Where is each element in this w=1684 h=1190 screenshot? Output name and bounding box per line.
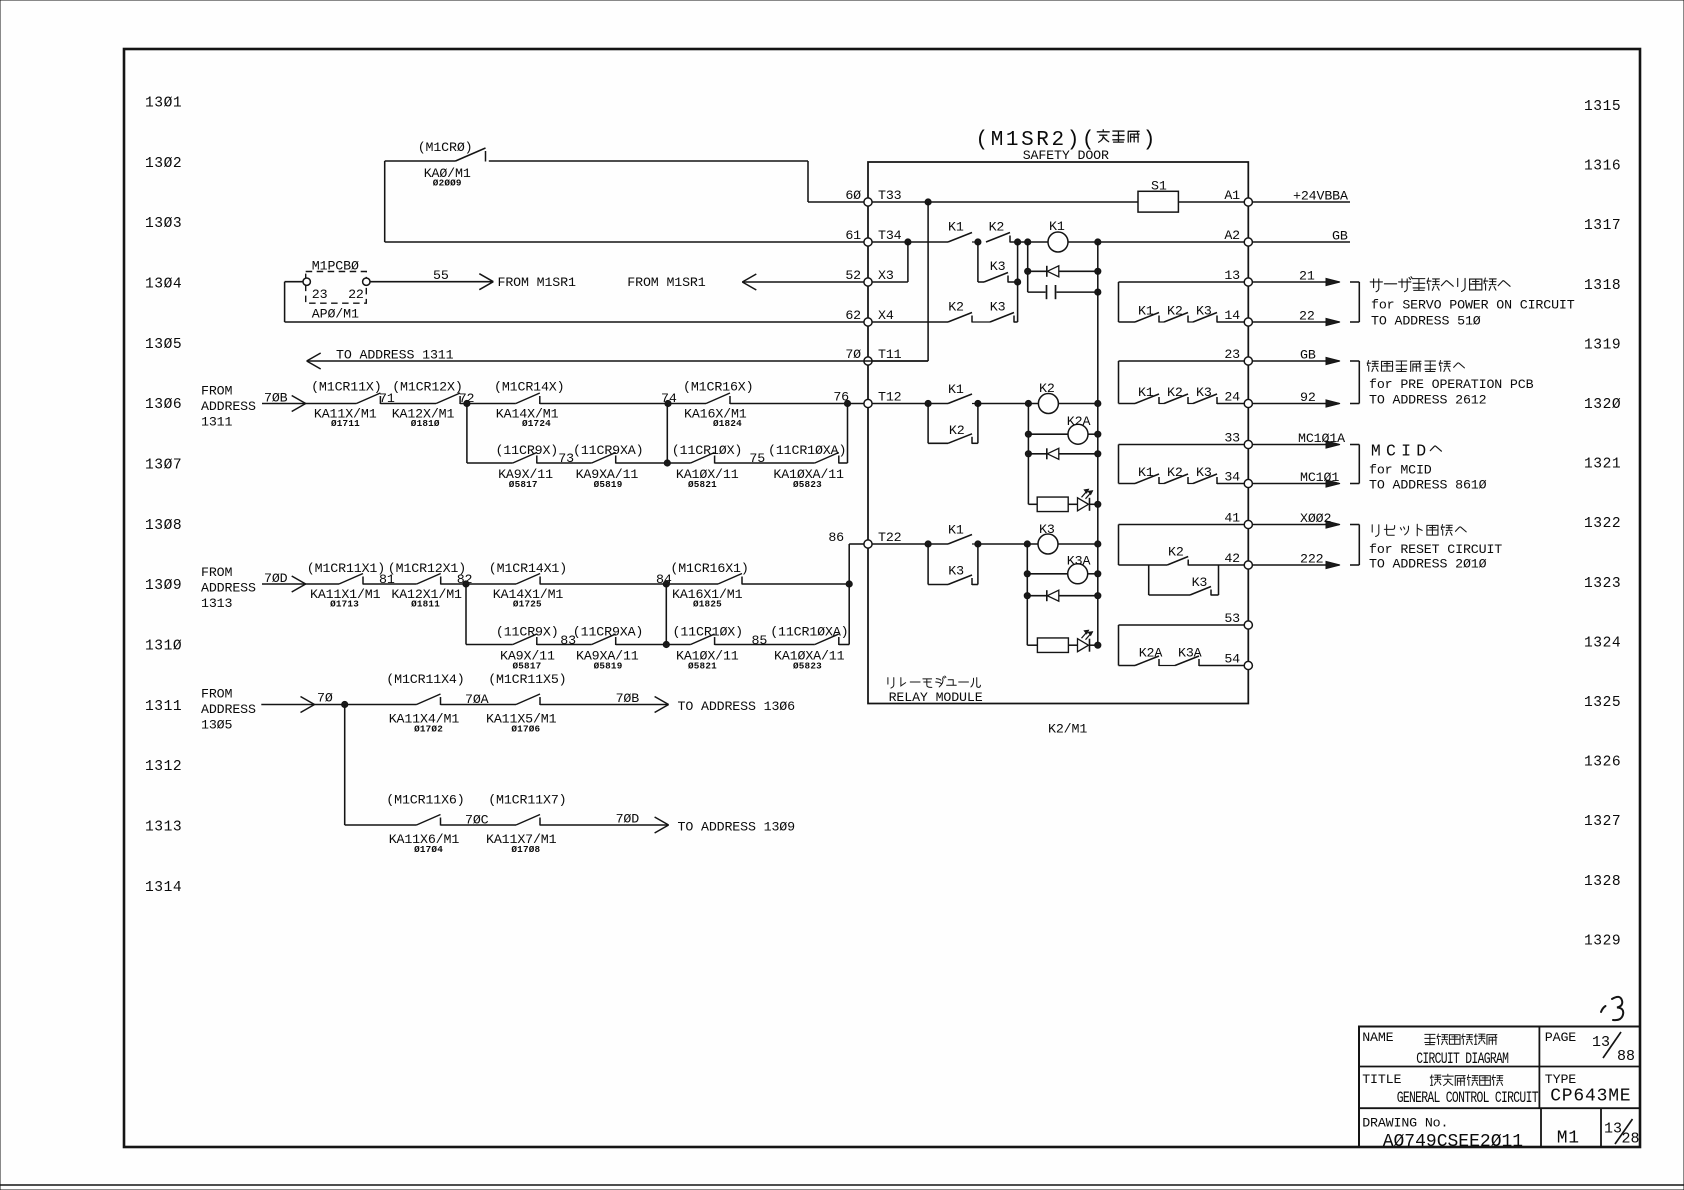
junction T33 xyxy=(925,199,931,205)
wire 70D xyxy=(262,571,339,592)
svg-text:53: 53 xyxy=(1224,611,1240,626)
svg-text:K3A: K3A xyxy=(1178,646,1202,661)
svg-text:SAFETY DOOR: SAFETY DOOR xyxy=(1023,148,1109,163)
bracket reset xyxy=(1350,524,1359,526)
wire 70D out xyxy=(540,812,795,835)
svg-text:52: 52 xyxy=(845,268,861,283)
svg-text:(M1CR11X7): (M1CR11X7) xyxy=(488,793,566,808)
svg-text:21: 21 xyxy=(1299,269,1315,284)
contact KA11X5/M1 (M1CR11X5) xyxy=(486,672,566,735)
svg-text:(M1CR16X1): (M1CR16X1) xyxy=(670,561,748,576)
svg-text:NAME: NAME xyxy=(1362,1030,1393,1045)
svg-text:(: ( xyxy=(975,129,988,152)
svg-text:Ø2ØØ9: Ø2ØØ9 xyxy=(433,178,462,189)
svg-text:1315: 1315 xyxy=(1584,99,1621,115)
annotation reset circuit xyxy=(1369,524,1502,571)
svg-text:7ØB: 7ØB xyxy=(616,691,640,706)
contact K2 (T34 row) xyxy=(986,220,1010,243)
svg-text:TO ADDRESS 861Ø: TO ADDRESS 861Ø xyxy=(1369,478,1487,493)
svg-text:K3: K3 xyxy=(1196,385,1212,400)
node mid (1307) xyxy=(616,404,691,467)
svg-text:62: 62 xyxy=(845,308,861,323)
svg-text:1313: 1313 xyxy=(145,819,182,835)
svg-text:K1: K1 xyxy=(1138,385,1154,400)
left drop K2 group xyxy=(1027,404,1029,505)
wire 1307 right riser xyxy=(839,462,848,464)
contact chain K1K2K3 (23-24) xyxy=(1119,361,1245,404)
svg-text:1316: 1316 xyxy=(1584,159,1621,175)
svg-text:X3: X3 xyxy=(878,268,894,283)
resistor R1 + LED1 xyxy=(1028,489,1101,511)
svg-text:TO ADDRESS 2612: TO ADDRESS 2612 xyxy=(1369,393,1487,408)
svg-text:(11CR1ØXA): (11CR1ØXA) xyxy=(770,625,848,640)
contact KA11X1/M1 (M1CR11X1) xyxy=(307,561,385,610)
svg-text:X4: X4 xyxy=(878,308,894,323)
contact K1 (T12 row) xyxy=(948,382,972,404)
coil K2A xyxy=(1025,414,1101,444)
svg-text:K2/M1: K2/M1 xyxy=(1048,722,1087,737)
svg-text:92: 92 xyxy=(1300,390,1316,405)
annotation servo power xyxy=(1370,277,1575,329)
node 81 xyxy=(363,572,417,587)
svg-text:(11CR9XA): (11CR9XA) xyxy=(573,625,643,640)
annotation pre operation pcb xyxy=(1367,360,1533,407)
svg-text:(M1CR11X1): (M1CR11X1) xyxy=(307,561,385,576)
terminal T34 xyxy=(845,228,901,246)
from address 1305 (row 1311) xyxy=(201,687,256,733)
svg-text:13: 13 xyxy=(1592,1034,1610,1051)
svg-text:33: 33 xyxy=(1224,430,1240,445)
svg-text:Ø17Ø6: Ø17Ø6 xyxy=(511,724,540,735)
svg-text:13Ø8: 13Ø8 xyxy=(145,518,182,534)
svg-text:K2: K2 xyxy=(949,423,965,438)
svg-text:Ø1711: Ø1711 xyxy=(331,418,360,429)
svg-text:(M1CR16X): (M1CR16X) xyxy=(683,380,753,395)
coil K1 xyxy=(1048,219,1068,252)
contact KA11X7/M1 (M1CR11X7) xyxy=(486,793,566,856)
svg-text:K2: K2 xyxy=(1168,545,1184,560)
terminal 42 xyxy=(1224,551,1252,569)
svg-text:1317: 1317 xyxy=(1584,218,1621,234)
svg-text:TO ADDRESS 13Ø9: TO ADDRESS 13Ø9 xyxy=(678,820,796,835)
svg-text:61: 61 xyxy=(845,228,861,243)
wire T11 to address 1311 xyxy=(307,348,928,370)
svg-text:Ø1724: Ø1724 xyxy=(522,418,551,429)
contact KA0/M1 (M1CR0) xyxy=(385,140,864,242)
contact K2 (X4 row) xyxy=(948,300,972,323)
terminal 41 xyxy=(1224,510,1252,528)
svg-text:K2: K2 xyxy=(1039,381,1055,396)
riser to row 1313 xyxy=(344,705,346,826)
svg-text:54: 54 xyxy=(1224,651,1240,666)
svg-text:Ø5823: Ø5823 xyxy=(793,661,822,672)
wire 70B out xyxy=(540,691,795,714)
relay module box M1SR2 xyxy=(868,162,1248,704)
terminal A1 xyxy=(1224,188,1252,206)
svg-text:22: 22 xyxy=(348,287,364,302)
svg-text:K1: K1 xyxy=(1138,465,1154,480)
svg-text:TO ADDRESS 2Ø1Ø: TO ADDRESS 2Ø1Ø xyxy=(1369,557,1487,572)
label relay module xyxy=(888,676,983,705)
svg-text:34: 34 xyxy=(1224,469,1240,484)
svg-text:55: 55 xyxy=(433,268,449,283)
svg-text:FROM M1SR1: FROM M1SR1 xyxy=(498,275,576,290)
svg-text:Ø1825: Ø1825 xyxy=(693,599,722,610)
svg-text:CP643ME: CP643ME xyxy=(1550,1087,1631,1107)
svg-text:K2: K2 xyxy=(948,300,964,315)
terminal 13 xyxy=(1224,268,1252,286)
svg-text:T33: T33 xyxy=(878,188,902,203)
svg-text:1311: 1311 xyxy=(201,415,232,430)
svg-text:1313: 1313 xyxy=(201,596,232,611)
svg-text:AØ749CSEE2Ø11: AØ749CSEE2Ø11 xyxy=(1383,1132,1523,1152)
wire pin23 to X4 xyxy=(285,281,303,283)
contact K3 (X4 row) xyxy=(990,300,1014,323)
svg-text:FROM: FROM xyxy=(201,565,232,580)
terminal T33 xyxy=(845,188,901,206)
svg-text:7ØD: 7ØD xyxy=(616,812,640,827)
svg-text:13Ø6: 13Ø6 xyxy=(145,397,182,413)
svg-text:13Ø3: 13Ø3 xyxy=(145,216,182,232)
contact KA14X1/M1 (M1CR14X1) xyxy=(489,561,567,610)
svg-text:Ø5821: Ø5821 xyxy=(688,661,717,672)
svg-text:1328: 1328 xyxy=(1584,874,1621,890)
wire left drop for diode/cap xyxy=(1027,242,1029,292)
net 222 xyxy=(1252,552,1340,569)
terminal 54 xyxy=(1224,651,1252,669)
svg-text:TO ADDRESS 51Ø: TO ADDRESS 51Ø xyxy=(1371,314,1481,329)
contact chain K2A/K3A (53-54) xyxy=(1119,625,1245,666)
svg-text:APØ/M1: APØ/M1 xyxy=(312,307,359,322)
svg-text:T22: T22 xyxy=(878,530,902,545)
svg-text:K2: K2 xyxy=(1167,304,1183,319)
wire 70 in xyxy=(261,691,416,713)
bypass row 1307 xyxy=(467,404,513,464)
svg-text:1: 1 xyxy=(1006,129,1019,152)
svg-text:+24VBBA: +24VBBA xyxy=(1293,189,1348,204)
svg-text:Ø17Ø8: Ø17Ø8 xyxy=(511,844,540,855)
wire X3 jog up xyxy=(907,242,909,282)
diode D2 xyxy=(1025,448,1101,459)
svg-text:Ø5819: Ø5819 xyxy=(594,661,623,672)
svg-text:K2A: K2A xyxy=(1139,646,1163,661)
node 72 xyxy=(459,391,516,407)
diode D3 xyxy=(1024,590,1101,601)
svg-text:for SERVO POWER ON CIRCUIT: for SERVO POWER ON CIRCUIT xyxy=(1371,298,1575,313)
annotation MCID xyxy=(1369,442,1487,493)
svg-text:131Ø: 131Ø xyxy=(145,638,182,654)
svg-text:Ø5817: Ø5817 xyxy=(513,661,542,672)
svg-text:T11: T11 xyxy=(878,347,902,362)
svg-text:1324: 1324 xyxy=(1584,635,1621,651)
contact KA12X1/M1 (M1CR12X1) xyxy=(388,561,466,610)
from address 1311 (row 1306) xyxy=(201,384,256,430)
contact KA9X/11 (11CR9X) xyxy=(496,443,559,490)
svg-text:(11CR1ØX): (11CR1ØX) xyxy=(672,443,742,458)
svg-text:24: 24 xyxy=(1224,389,1240,404)
bracket servo xyxy=(1350,281,1359,283)
svg-text:A1: A1 xyxy=(1224,188,1240,203)
svg-text:(M1CR11X4): (M1CR11X4) xyxy=(386,672,464,687)
svg-text:(M1CR14X1): (M1CR14X1) xyxy=(489,561,567,576)
contact KA11X4/M1 (M1CR11X4) xyxy=(386,672,464,735)
net 22 xyxy=(1252,309,1340,326)
svg-text:Ø181Ø: Ø181Ø xyxy=(411,418,440,429)
svg-text:Ø17Ø2: Ø17Ø2 xyxy=(414,724,443,735)
wire T33 junction down to T11 xyxy=(927,202,929,361)
svg-text:13Ø9: 13Ø9 xyxy=(145,578,182,594)
svg-text:FROM: FROM xyxy=(201,384,232,399)
svg-text:K1: K1 xyxy=(948,523,964,538)
contact KA10XA/11 (11CR10XA) row1310 xyxy=(770,625,848,672)
svg-text:(11CR9X): (11CR9X) xyxy=(496,625,559,640)
title (M1SR2)(safety door) xyxy=(975,129,1155,152)
svg-text:Ø1824: Ø1824 xyxy=(713,418,742,429)
node 75 xyxy=(715,451,815,466)
contact KA10XA/11 (11CR10XA) xyxy=(768,443,846,490)
connector M1PCB0 / AP0/M1 xyxy=(303,259,370,322)
svg-text:73: 73 xyxy=(558,451,574,466)
svg-text:FROM M1SR1: FROM M1SR1 xyxy=(627,275,705,290)
svg-text:M1: M1 xyxy=(1557,1129,1580,1149)
contact KA12X/M1 (M1CR12X) xyxy=(392,380,463,429)
wire to K2 coil xyxy=(978,403,1039,405)
terminal T11 xyxy=(845,347,901,365)
net MC1Ø1 xyxy=(1252,470,1340,487)
contact K1 (T22 row) xyxy=(948,523,972,545)
terminal T12 xyxy=(833,389,901,407)
svg-text:1319: 1319 xyxy=(1584,337,1621,353)
wire X4 chain up to K3 row xyxy=(1014,321,1018,323)
net +24VBBA xyxy=(1252,189,1350,204)
svg-text:22: 22 xyxy=(1299,309,1315,324)
svg-text:Ø5817: Ø5817 xyxy=(509,479,538,490)
svg-text:Ø5821: Ø5821 xyxy=(688,479,717,490)
svg-text:XØØ2: XØØ2 xyxy=(1300,511,1331,526)
svg-text:13: 13 xyxy=(1224,268,1240,283)
diode D1 xyxy=(1025,266,1101,277)
svg-text:222: 222 xyxy=(1300,552,1324,567)
svg-text:13: 13 xyxy=(1604,1121,1622,1138)
capacitor C1 xyxy=(1028,285,1101,299)
svg-text:RELAY MODULE: RELAY MODULE xyxy=(889,690,983,705)
wire pin22 out 55 xyxy=(370,268,576,290)
svg-text:(11CR1ØX): (11CR1ØX) xyxy=(673,625,743,640)
svg-text:14: 14 xyxy=(1224,308,1240,323)
node 70C xyxy=(441,813,517,828)
svg-text:(M1CR12X): (M1CR12X) xyxy=(392,380,462,395)
terminal X4 xyxy=(845,308,894,326)
svg-text:M: M xyxy=(991,129,1004,152)
svg-text:7ØC: 7ØC xyxy=(465,813,489,828)
net GB (A2) xyxy=(1252,229,1350,244)
wire 1310 right riser xyxy=(839,644,849,646)
wire T34 from loop xyxy=(385,241,864,243)
svg-text:D: D xyxy=(1416,442,1427,461)
svg-text:K2: K2 xyxy=(1167,385,1183,400)
wire row 1313 xyxy=(345,824,417,826)
svg-text:MC1Ø1: MC1Ø1 xyxy=(1300,470,1339,485)
svg-text:T12: T12 xyxy=(878,389,902,404)
node 84 xyxy=(540,572,718,587)
wire S1 to A1 xyxy=(1178,201,1244,203)
svg-text:DRAWING No.: DRAWING No. xyxy=(1362,1116,1448,1131)
svg-text:Ø1811: Ø1811 xyxy=(411,599,440,610)
svg-text:(11CR9XA): (11CR9XA) xyxy=(573,443,643,458)
contact chain K1K2K3 (13-14) xyxy=(1119,282,1245,323)
svg-text:K2: K2 xyxy=(1167,465,1183,480)
svg-text:K3: K3 xyxy=(990,300,1006,315)
svg-text:(M1CR11X5): (M1CR11X5) xyxy=(488,672,566,687)
svg-text:(11CR9X): (11CR9X) xyxy=(496,443,559,458)
wire X3 from M1SR1 xyxy=(627,274,864,290)
contact K2 parallel (T12 row) xyxy=(928,404,978,444)
left drop K3 group xyxy=(1026,544,1028,645)
svg-text:C: C xyxy=(1386,442,1397,461)
svg-text:A2: A2 xyxy=(1224,228,1240,243)
svg-text:13Ø5: 13Ø5 xyxy=(145,337,182,353)
svg-text:42: 42 xyxy=(1224,551,1240,566)
svg-text:GB: GB xyxy=(1332,229,1348,244)
svg-text:ADDRESS: ADDRESS xyxy=(201,702,256,717)
node mid (1310) xyxy=(616,584,691,648)
svg-text:for RESET CIRCUIT: for RESET CIRCUIT xyxy=(1369,542,1502,557)
wire T12 lead xyxy=(872,403,948,405)
svg-text:132Ø: 132Ø xyxy=(1584,397,1621,413)
svg-text:K1: K1 xyxy=(948,382,964,397)
svg-text:1318: 1318 xyxy=(1584,278,1621,294)
handwritten page mark xyxy=(1601,1006,1606,1012)
node 71 xyxy=(379,391,436,406)
from address 1313 (row 1309) xyxy=(201,565,256,611)
contact K1 (T34 row) xyxy=(948,220,972,243)
svg-text:1326: 1326 xyxy=(1584,755,1621,771)
terminal 34 xyxy=(1224,469,1252,487)
svg-text:1329: 1329 xyxy=(1584,933,1621,949)
net 92 xyxy=(1252,390,1340,407)
svg-text:41: 41 xyxy=(1224,510,1240,525)
coil K2 xyxy=(1038,381,1058,414)
contact KA9X/11 (11CR9X) row1310 xyxy=(496,625,559,672)
svg-text:MC1Ø1A: MC1Ø1A xyxy=(1298,431,1345,446)
contact KA14X/M1 (M1CR14X) xyxy=(494,380,564,429)
terminal 23 xyxy=(1224,347,1252,365)
node 82 xyxy=(441,572,516,587)
svg-text:for MCID: for MCID xyxy=(1369,463,1432,478)
svg-text:K2A: K2A xyxy=(1067,414,1091,429)
contact KA9XA/11 (11CR9XA) row1310 xyxy=(573,625,643,672)
svg-text:TITLE: TITLE xyxy=(1362,1072,1401,1087)
junction T34/X3 xyxy=(905,239,911,245)
svg-text:7ØA: 7ØA xyxy=(465,692,489,707)
contact KA11X6/M1 (M1CR11X6) xyxy=(386,793,464,856)
svg-text:K1: K1 xyxy=(948,220,964,235)
svg-text:(11CR1ØXA): (11CR1ØXA) xyxy=(768,443,846,458)
svg-text:1322: 1322 xyxy=(1584,516,1621,532)
node 70A xyxy=(441,692,517,707)
svg-text:GB: GB xyxy=(1300,348,1316,363)
contact KA11X/M1 (M1CR11X) xyxy=(311,380,381,429)
contact KA9XA/11 (11CR9XA) xyxy=(573,443,643,490)
wire T11 lead xyxy=(872,360,928,362)
svg-text:23: 23 xyxy=(1224,347,1240,362)
bus wire (A2 return) xyxy=(1097,242,1099,645)
svg-text:1314: 1314 xyxy=(145,880,182,896)
net 21 xyxy=(1252,269,1340,286)
wire T34 lead xyxy=(872,241,948,243)
svg-text:K1: K1 xyxy=(1049,219,1065,234)
svg-text:(M1CR11X6): (M1CR11X6) xyxy=(386,793,464,808)
terminal T22 xyxy=(828,530,901,548)
svg-text:28: 28 xyxy=(1622,1131,1640,1148)
contact chain K2/K3 (41-42) xyxy=(1119,525,1245,596)
svg-text:1325: 1325 xyxy=(1584,695,1621,711)
contact KA16X1/M1 (M1CR16X1) xyxy=(670,561,748,610)
svg-text:(M1CR11X): (M1CR11X) xyxy=(311,380,381,395)
wire T22 lead xyxy=(872,543,948,545)
svg-text:13Ø2: 13Ø2 xyxy=(145,156,182,172)
svg-text:K3: K3 xyxy=(990,259,1006,274)
svg-text:(M1CRØ): (M1CRØ) xyxy=(418,140,473,155)
svg-text:13Ø7: 13Ø7 xyxy=(145,457,182,473)
svg-text:S1: S1 xyxy=(1151,179,1167,194)
contact K3 parallel (T22 row) xyxy=(928,544,978,585)
bracket mcid xyxy=(1350,444,1359,446)
coil K3A xyxy=(1024,554,1101,584)
terminal X3 xyxy=(845,268,894,286)
contact KA10X/11 (11CR10X) row1310 xyxy=(673,625,743,672)
svg-text:Ø5823: Ø5823 xyxy=(793,479,822,490)
coil K3 xyxy=(1038,522,1058,554)
svg-text:): ) xyxy=(1143,129,1156,152)
node 76 xyxy=(730,400,864,406)
wire T33 to S1 xyxy=(872,201,1138,203)
svg-text:1323: 1323 xyxy=(1584,576,1621,592)
wire X4 lead xyxy=(872,321,948,323)
svg-text:I: I xyxy=(1401,442,1412,461)
svg-text:13Ø4: 13Ø4 xyxy=(145,276,182,292)
svg-text:K3: K3 xyxy=(1196,465,1212,480)
svg-text:1321: 1321 xyxy=(1584,457,1621,473)
contact KA16X/M1 (M1CR16X) xyxy=(683,380,753,429)
terminal 14 xyxy=(1224,308,1252,326)
svg-text:K3: K3 xyxy=(1192,575,1208,590)
fuse S1 xyxy=(1138,179,1178,213)
svg-text:TYPE: TYPE xyxy=(1545,1072,1576,1087)
svg-text:K3: K3 xyxy=(1039,522,1055,537)
svg-text:Ø17Ø4: Ø17Ø4 xyxy=(414,844,443,855)
wire 70B xyxy=(262,391,356,412)
svg-text:(M1CR14X): (M1CR14X) xyxy=(494,380,564,395)
terminal A2 xyxy=(1224,228,1252,246)
title block xyxy=(1359,1027,1640,1152)
svg-text:23: 23 xyxy=(312,287,328,302)
svg-text:(M1CR12X1): (M1CR12X1) xyxy=(388,561,466,576)
svg-text:M: M xyxy=(1371,442,1382,461)
svg-text:TO ADDRESS 1311: TO ADDRESS 1311 xyxy=(336,348,454,363)
svg-text:13Ø1: 13Ø1 xyxy=(145,96,182,112)
net GB (23) xyxy=(1252,348,1340,365)
svg-text:7Ø: 7Ø xyxy=(845,347,861,362)
svg-text:Ø1725: Ø1725 xyxy=(513,599,542,610)
svg-text:75: 75 xyxy=(749,451,765,466)
svg-text:GENERAL CONTROL CIRCUIT: GENERAL CONTROL CIRCUIT xyxy=(1397,1091,1539,1108)
svg-text:K3: K3 xyxy=(948,564,964,579)
contact KA10X/11 (11CR10X) xyxy=(672,443,742,490)
svg-text:ADDRESS: ADDRESS xyxy=(201,581,256,596)
svg-text:86: 86 xyxy=(828,530,844,545)
net MC1Ø1A xyxy=(1252,431,1345,448)
